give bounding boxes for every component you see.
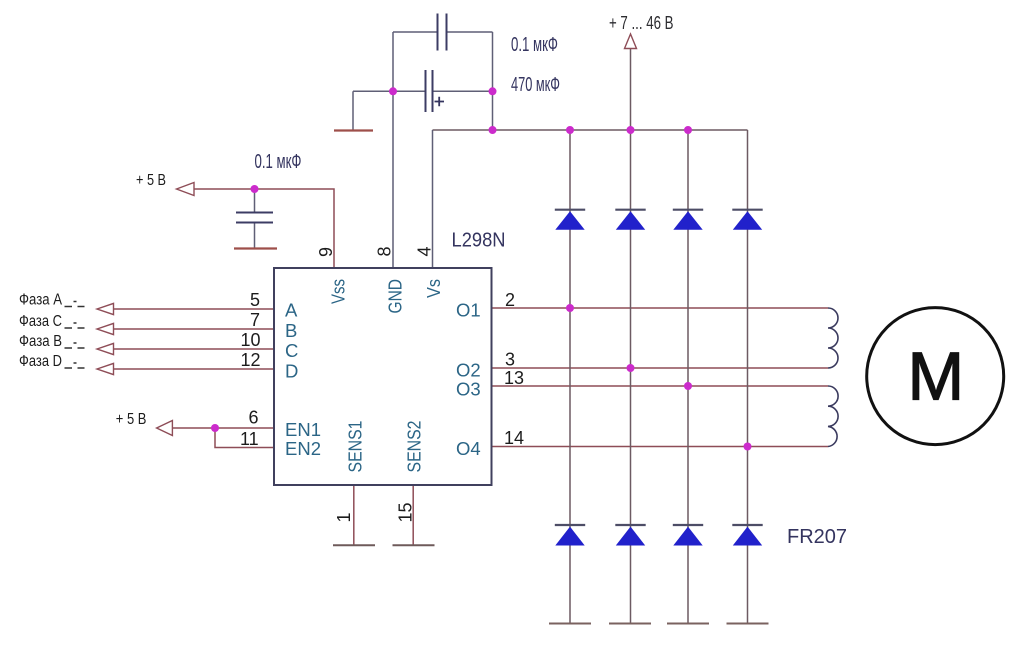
svg-text:12: 12 bbox=[241, 350, 261, 370]
svg-text:Фаза C: Фаза C bbox=[19, 313, 62, 330]
svg-text:O3: O3 bbox=[456, 379, 481, 400]
svg-text:2: 2 bbox=[505, 290, 515, 310]
svg-text:0.1 мкФ: 0.1 мкФ bbox=[255, 151, 302, 173]
svg-text:D: D bbox=[285, 361, 298, 382]
svg-text:7: 7 bbox=[250, 310, 260, 330]
svg-text:SENS1: SENS1 bbox=[345, 421, 366, 473]
svg-text:O2: O2 bbox=[456, 360, 481, 381]
svg-text:GND: GND bbox=[385, 279, 406, 314]
svg-text:0.1 мкФ: 0.1 мкФ bbox=[511, 34, 558, 56]
svg-text:6: 6 bbox=[249, 408, 259, 428]
svg-text:8: 8 bbox=[375, 246, 395, 256]
svg-text:+ 7 ... 46 В: + 7 ... 46 В bbox=[609, 13, 674, 33]
svg-text:M: M bbox=[908, 338, 965, 414]
svg-text:470 мкФ: 470 мкФ bbox=[511, 74, 560, 96]
svg-text:C: C bbox=[285, 340, 298, 361]
svg-text:O1: O1 bbox=[456, 300, 481, 321]
svg-text:13: 13 bbox=[504, 368, 524, 388]
svg-text:EN2: EN2 bbox=[285, 438, 321, 459]
svg-text:EN1: EN1 bbox=[285, 419, 321, 440]
svg-text:Vss: Vss bbox=[328, 279, 349, 304]
svg-text:15: 15 bbox=[396, 502, 416, 522]
svg-text:+ 5 В: + 5 В bbox=[116, 411, 147, 428]
svg-text:O4: O4 bbox=[456, 438, 481, 459]
svg-text:3: 3 bbox=[505, 350, 515, 370]
svg-text:1: 1 bbox=[334, 512, 354, 522]
svg-text:Фаза A: Фаза A bbox=[19, 292, 63, 309]
svg-text:B: B bbox=[285, 320, 297, 341]
svg-text:FR207: FR207 bbox=[787, 526, 847, 548]
svg-text:9: 9 bbox=[316, 247, 336, 257]
svg-text:+ 5 В: + 5 В bbox=[136, 172, 166, 189]
svg-text:14: 14 bbox=[504, 428, 524, 448]
svg-text:A: A bbox=[285, 300, 298, 321]
svg-text:Фаза D: Фаза D bbox=[19, 353, 62, 370]
svg-text:10: 10 bbox=[241, 330, 261, 350]
svg-text:11: 11 bbox=[240, 429, 259, 449]
svg-text:Фаза B: Фаза B bbox=[19, 333, 62, 350]
svg-text:Vs: Vs bbox=[423, 279, 444, 298]
svg-text:SENS2: SENS2 bbox=[404, 421, 425, 473]
svg-text:5: 5 bbox=[250, 290, 260, 310]
svg-text:4: 4 bbox=[415, 246, 435, 256]
svg-text:L298N: L298N bbox=[452, 230, 506, 252]
